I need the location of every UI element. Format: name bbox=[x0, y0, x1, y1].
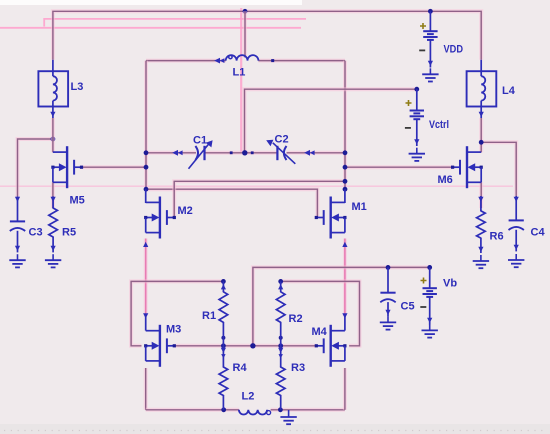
varactor C1 curved plate bbox=[195, 146, 198, 160]
junction node VDD/battery bbox=[428, 9, 433, 14]
label M2 bbox=[178, 205, 193, 217]
port M2 source bbox=[143, 242, 148, 247]
resistor R6 bbox=[477, 196, 486, 253]
wire L1 center tap bbox=[243, 11, 247, 57]
junction node tank-right/varactor bbox=[343, 150, 348, 155]
junction node R2 bottom bbox=[279, 336, 283, 340]
ground C3 bbox=[9, 246, 25, 268]
wire cross-couple A (tank-left to M1 gate) bbox=[146, 189, 317, 217]
svg-text:M2: M2 bbox=[178, 205, 193, 217]
inductor L4 box bbox=[467, 71, 497, 106]
inductor L3 box bbox=[38, 71, 68, 106]
svg-text:VDD: VDD bbox=[444, 44, 464, 56]
inductor L3 lead bottom bbox=[52, 101, 54, 118]
junction node tank-right lower bbox=[343, 187, 348, 192]
svg-text:C1: C1 bbox=[193, 135, 207, 147]
inductor L4 coil bbox=[481, 76, 485, 100]
port C3 top bbox=[15, 197, 20, 202]
inductor L1 polarity dot bbox=[229, 55, 232, 58]
transistor M5 bbox=[51, 146, 83, 188]
wire cross-couple B (M2 gate to tank-right) bbox=[174, 181, 345, 217]
port L1 right bbox=[271, 59, 274, 62]
ground Vctrl bbox=[409, 148, 425, 161]
port C5 bottom bbox=[385, 310, 390, 315]
junction node R2/R3 mid bbox=[278, 343, 283, 348]
varactor C1 arrow bbox=[189, 140, 213, 169]
junction node C3 branch tap bbox=[51, 137, 56, 142]
varactor C2 arrow bbox=[266, 140, 295, 164]
label R1 bbox=[202, 310, 216, 322]
wire tank left vertical bbox=[144, 61, 148, 190]
label M1 bbox=[352, 201, 367, 213]
svg-text:L4: L4 bbox=[502, 85, 516, 97]
label C4 bbox=[531, 227, 546, 239]
label L1 bbox=[233, 67, 246, 79]
junction node R1 top bbox=[221, 279, 226, 284]
svg-text:C3: C3 bbox=[29, 227, 43, 239]
wire M5 source to R5 bbox=[51, 182, 55, 208]
wire bias rail (Vb) bbox=[253, 267, 430, 345]
junction node bias/gate line bbox=[250, 343, 255, 348]
port R2 top bbox=[278, 284, 283, 289]
varactor C2 curved plate bbox=[284, 146, 287, 160]
svg-text:L1: L1 bbox=[233, 67, 246, 79]
label C1 bbox=[193, 135, 207, 147]
resistor R4 bbox=[219, 346, 228, 410]
port Vctrl battery bottom bbox=[414, 139, 419, 144]
svg-text:R2: R2 bbox=[289, 313, 303, 325]
port L1 left bbox=[214, 58, 224, 64]
label R2 bbox=[289, 313, 303, 325]
inductor L2 coil bbox=[239, 410, 267, 415]
svg-text:R1: R1 bbox=[202, 310, 216, 322]
port L3 bottom bbox=[50, 112, 55, 117]
junction node tank-left/M5 gate bbox=[144, 165, 149, 170]
wire M6 gate line bbox=[345, 165, 453, 169]
wire M1 drain lead bbox=[344, 189, 346, 203]
port M3 drain top bbox=[143, 313, 148, 318]
ground C4 bbox=[508, 245, 524, 267]
capacitor C5 bbox=[380, 267, 395, 316]
port R3 top bbox=[278, 348, 283, 359]
label Vctrl bbox=[429, 119, 449, 131]
port R5 top bbox=[51, 197, 56, 202]
wire M6 source to R6 bbox=[479, 182, 483, 208]
wire tank top (L1 row) bbox=[146, 59, 345, 63]
wire ghost of VDD rail (lower) bbox=[0, 27, 301, 29]
junction node R4 bottom bbox=[221, 407, 226, 412]
label C3 bbox=[29, 227, 43, 239]
transistor M3 bbox=[144, 325, 176, 367]
resistor R1 bbox=[219, 281, 228, 345]
wire M3-M4 gate line bbox=[174, 344, 316, 348]
ground R5 bbox=[45, 246, 61, 268]
svg-text:M3: M3 bbox=[166, 324, 181, 336]
wire ghost across mid schematic bbox=[0, 185, 513, 187]
ground bottom rail bbox=[280, 410, 296, 424]
transistor M1 bbox=[315, 197, 347, 239]
junction node R1 bottom bbox=[221, 336, 225, 340]
wire L3 to M5 drain bbox=[51, 118, 55, 152]
port R1 top bbox=[221, 284, 226, 289]
label R4 bbox=[233, 362, 248, 374]
junction node R3 bottom / ground bbox=[278, 407, 283, 412]
transistor M6 bbox=[451, 146, 483, 188]
label M6 bbox=[438, 174, 453, 186]
svg-text:Vb: Vb bbox=[443, 278, 457, 290]
port M1 source bbox=[342, 242, 347, 247]
label Vb bbox=[443, 278, 457, 290]
battery Vb minus bbox=[420, 306, 426, 308]
label L3 bbox=[71, 81, 84, 93]
capacitor C3 bbox=[10, 196, 25, 252]
wire M1 source to M4 drain bbox=[343, 239, 347, 317]
junction node R1/R4 mid bbox=[221, 343, 226, 348]
port R6 top bbox=[478, 197, 483, 202]
wire VDD rail bbox=[53, 11, 481, 60]
junction node Vctrl battery top bbox=[414, 87, 419, 92]
junction node cross-A start bbox=[144, 187, 149, 192]
svg-text:C5: C5 bbox=[401, 301, 415, 313]
battery VDD plus bbox=[420, 23, 426, 29]
wire C3 branch bbox=[18, 139, 53, 196]
wire Vctrl to varactor mid bbox=[245, 89, 417, 153]
junction node C5 top bbox=[386, 265, 391, 270]
wire bottom rail right bbox=[271, 408, 345, 412]
port VDD battery bottom bbox=[428, 61, 433, 66]
label C2 bbox=[275, 134, 289, 146]
inductor L4 lead bottom bbox=[480, 101, 482, 118]
resistor R3 bbox=[276, 346, 285, 410]
label M4 bbox=[312, 326, 328, 338]
battery Vctrl minus bbox=[405, 127, 411, 129]
svg-text:C2: C2 bbox=[275, 134, 289, 146]
port M4 drain top bbox=[342, 313, 347, 318]
port Vb battery bottom bbox=[427, 318, 432, 323]
wire M3 drain lead bbox=[145, 316, 147, 331]
port R4 top bbox=[221, 348, 226, 359]
battery VDD bbox=[423, 11, 437, 67]
junction node VDD/L1 tap bbox=[243, 9, 248, 14]
battery Vctrl bbox=[410, 89, 424, 146]
label R6 bbox=[490, 231, 504, 243]
wire ghost of Vctrl center tap bbox=[240, 8, 242, 152]
svg-text:M4: M4 bbox=[312, 326, 328, 338]
junction node output/C4 tap bbox=[479, 140, 484, 145]
wire M2 drain lead bbox=[145, 189, 147, 203]
wire tank right vertical bbox=[343, 61, 347, 190]
svg-text:R4: R4 bbox=[233, 362, 248, 374]
port C1 right bbox=[230, 151, 233, 154]
junction node cross-B end bbox=[343, 179, 348, 184]
transistor M4 bbox=[315, 325, 347, 367]
svg-text:R5: R5 bbox=[62, 227, 76, 239]
svg-text:Vctrl: Vctrl bbox=[429, 119, 449, 131]
battery VDD minus bbox=[419, 49, 425, 51]
wire M4 drain lead bbox=[344, 316, 346, 331]
port L4 bottom bbox=[479, 112, 484, 117]
junction node varactor mid bbox=[242, 150, 247, 155]
label M3 bbox=[166, 324, 181, 336]
resistor R5 bbox=[49, 196, 58, 252]
junction node Vb top bbox=[427, 265, 432, 270]
transistor M2 bbox=[144, 197, 176, 239]
battery Vb bbox=[423, 267, 437, 324]
wire L4 to M6 drain bbox=[479, 118, 483, 152]
svg-text:R3: R3 bbox=[291, 362, 305, 374]
wire bottom rail left bbox=[146, 408, 239, 412]
svg-text:R6: R6 bbox=[490, 231, 504, 243]
svg-text:M5: M5 bbox=[70, 195, 85, 207]
svg-text:L2: L2 bbox=[242, 391, 255, 403]
varactor C1 straight plate bbox=[203, 146, 205, 160]
junction node R2 top bbox=[278, 279, 283, 284]
inductor L3 lead top bbox=[52, 60, 54, 76]
capacitor C4 bbox=[509, 196, 524, 251]
label R3 bbox=[291, 362, 305, 374]
wire M4 source drop bbox=[343, 368, 347, 410]
wire M2 source to M3 drain bbox=[144, 239, 148, 317]
port C1 left bbox=[172, 150, 182, 156]
port C2 left bbox=[251, 151, 254, 154]
inductor L4 lead top bbox=[480, 60, 482, 76]
junction node tank-left/varactor bbox=[144, 150, 149, 155]
label C5 bbox=[401, 301, 415, 313]
svg-text:M1: M1 bbox=[352, 201, 367, 213]
ground Vb bbox=[422, 324, 438, 337]
ground C5 bbox=[380, 316, 396, 329]
resistor R2 bbox=[276, 281, 285, 345]
ground R6 bbox=[473, 247, 489, 268]
svg-text:C4: C4 bbox=[531, 227, 546, 239]
junction node tank-right/M6 gate bbox=[343, 165, 348, 170]
label R5 bbox=[62, 227, 76, 239]
inductor L3 coil bbox=[53, 76, 57, 100]
inductor L2 polarity dot bbox=[267, 411, 271, 415]
ground VDD bbox=[422, 68, 438, 81]
wire output to C4 bbox=[481, 142, 516, 196]
port C2 right bbox=[304, 150, 314, 156]
wire ghost of VDD rail (upper) bbox=[44, 19, 306, 27]
svg-text:M6: M6 bbox=[438, 174, 453, 186]
port C4 top bbox=[514, 197, 519, 202]
wire M3 source drop bbox=[144, 368, 148, 410]
label L4 bbox=[502, 85, 516, 97]
label M5 bbox=[70, 195, 85, 207]
wire varactor row bbox=[146, 151, 345, 155]
svg-text:L3: L3 bbox=[71, 81, 84, 93]
wire M5 gate line bbox=[81, 165, 146, 169]
wire M3 bias loop (R1 top to M3 source) bbox=[131, 281, 223, 345]
varactor C2 straight plate bbox=[276, 146, 278, 160]
label L2 bbox=[242, 391, 255, 403]
battery Vctrl plus bbox=[406, 100, 412, 106]
label VDD bbox=[444, 44, 464, 56]
wire M4 bias loop (R2 top to M4 source) bbox=[281, 281, 360, 345]
battery Vb plus bbox=[421, 278, 427, 284]
inductor L1 coil bbox=[226, 55, 259, 60]
